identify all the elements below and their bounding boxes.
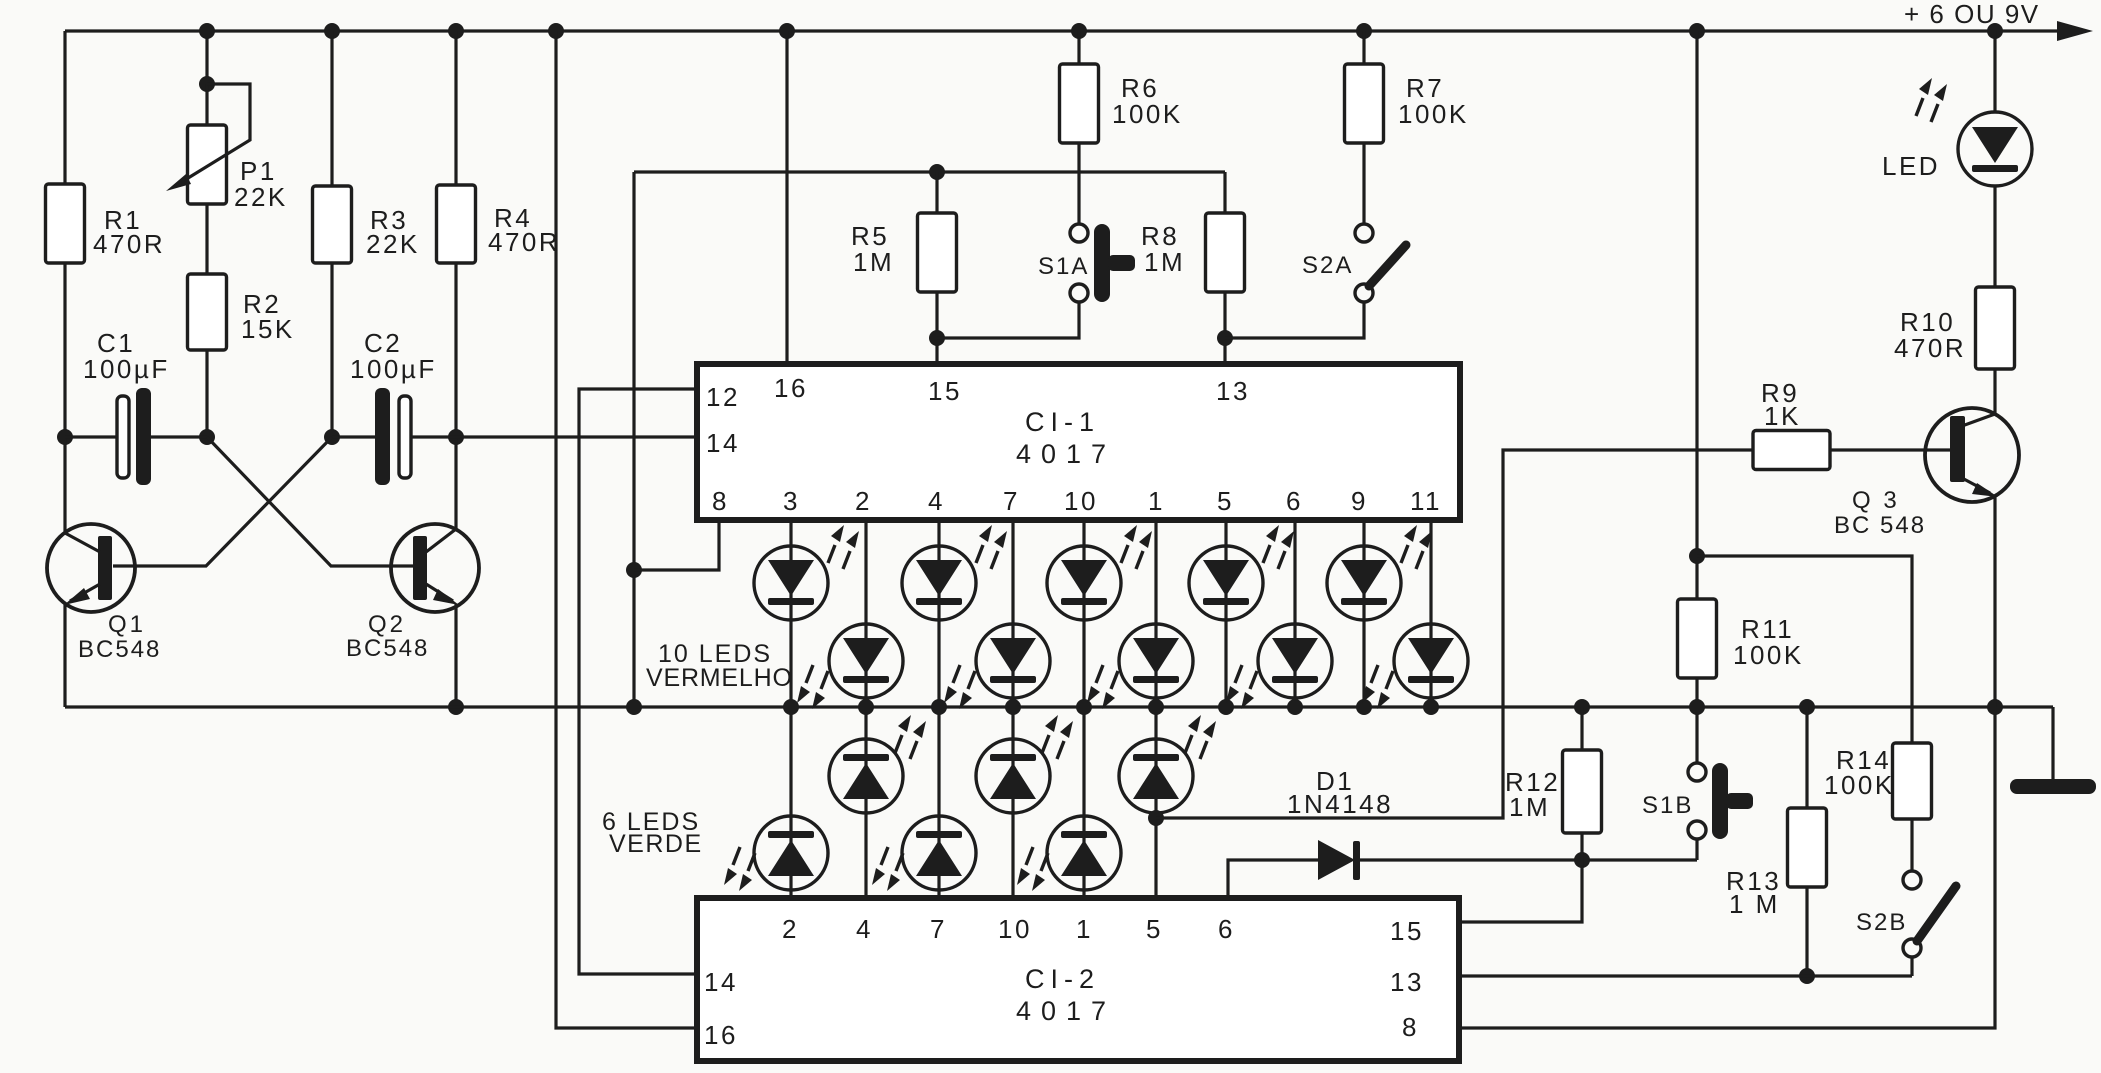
potentiometer P1 — [188, 125, 227, 204]
wire R11 bottom — [1695, 678, 1698, 763]
resistor R10 — [1976, 287, 2015, 369]
svg-text:5: 5 — [1217, 486, 1234, 516]
node R5 top junction — [929, 164, 945, 180]
resistor R2 — [188, 274, 227, 350]
op-amp U1 IC CI-1 4017 — [697, 364, 1460, 520]
wire R3 to Q1 base — [113, 437, 332, 566]
svg-text:4: 4 — [856, 914, 873, 944]
svg-text:VERMELHO: VERMELHO — [646, 664, 793, 692]
wire S2B bottom — [1910, 957, 1913, 976]
wire CI-2 pin5 to R9 — [1156, 450, 1753, 818]
wire Q2 emitter — [454, 604, 457, 707]
svg-text:Q 3: Q 3 — [1852, 487, 1900, 514]
svg-text:1N4148: 1N4148 — [1287, 789, 1393, 819]
node R8-S2A junction — [1217, 330, 1233, 346]
diode D1 1N4148 — [1318, 840, 1355, 880]
switch S2A — [1355, 224, 1373, 242]
wire R8 top — [1223, 172, 1226, 213]
wire CI-2 pin 13 — [1459, 974, 1912, 977]
resistor R12 — [1563, 750, 1602, 833]
node column 1156 rail junction — [1148, 699, 1164, 715]
svg-text:10: 10 — [998, 914, 1032, 944]
LED green LD14 — [902, 816, 976, 890]
node column 1013 rail junction — [1005, 699, 1021, 715]
wire LED anode — [1993, 31, 1996, 112]
LED red LD7 — [1189, 546, 1263, 620]
LED red LD6 — [1119, 624, 1193, 698]
wire LED column pin x=1156 — [1154, 520, 1157, 898]
wire S1A to pin15 — [937, 302, 1079, 338]
node R7 top — [1356, 23, 1372, 39]
wire R11 bus — [1695, 31, 1698, 599]
node LED top rail junction — [1987, 23, 2003, 39]
LED green LD11 — [829, 739, 903, 813]
wire R8 bottom / CI-1 pin 13 — [1223, 292, 1226, 364]
wire Q1 collector — [63, 437, 66, 533]
LED indicator — [1958, 112, 2032, 186]
svg-text:2: 2 — [782, 914, 799, 944]
svg-text:CI-1: CI-1 — [1025, 407, 1100, 437]
svg-text:6: 6 — [1286, 486, 1303, 516]
wire R5 bottom / CI-1 pin 15 — [935, 292, 938, 364]
resistor R8 — [1206, 213, 1245, 292]
resistor R9 — [1753, 431, 1830, 470]
wire R13 bottom — [1805, 887, 1808, 976]
wire R6 top — [1077, 31, 1080, 64]
node R11 rail junction — [1689, 699, 1705, 715]
wire R2 bottom — [205, 350, 208, 437]
svg-text:Q1: Q1 — [108, 611, 146, 638]
svg-text:8: 8 — [1402, 1012, 1419, 1042]
wire Q3 emitter — [1993, 496, 1996, 707]
wire R2 to Q2 base — [207, 437, 413, 566]
op-amp U2 IC CI-2 4017 — [697, 898, 1459, 1061]
svg-text:9: 9 — [1351, 486, 1368, 516]
wire R4 top — [454, 31, 457, 185]
LED red LD10 — [1394, 624, 1468, 698]
svg-text:7: 7 — [1003, 486, 1020, 516]
node column 1226 rail junction — [1218, 699, 1234, 715]
svg-text:100µF: 100µF — [350, 354, 437, 384]
svg-text:16: 16 — [774, 373, 808, 403]
wire P1 wiper arm — [180, 84, 250, 183]
wire CI-2 pin 15 — [1459, 860, 1582, 922]
wire CI-1 reset bus — [632, 172, 635, 707]
resistor R6 — [1060, 64, 1099, 143]
svg-text:4: 4 — [928, 486, 945, 516]
node R13 top — [1799, 699, 1815, 715]
resistor R3 — [313, 186, 352, 263]
svg-text:22K: 22K — [366, 229, 420, 259]
node CI-2 pin16 bus top — [548, 23, 564, 39]
wire common rail — [65, 705, 2053, 708]
svg-text:BC548: BC548 — [346, 635, 429, 662]
svg-text:15: 15 — [1390, 916, 1424, 946]
node Q3 emitter rail junction — [1987, 699, 2003, 715]
node R6 top — [1071, 23, 1087, 39]
svg-text:16: 16 — [704, 1020, 738, 1050]
node CI-2 pin5 to R9 junction — [1148, 810, 1164, 826]
wire P1 top — [205, 31, 208, 84]
LED green LD16 — [1047, 816, 1121, 890]
svg-text:470R: 470R — [1894, 333, 1966, 363]
wire S1B bottom — [1695, 839, 1698, 860]
switch S2B — [1903, 871, 1921, 889]
wire R1 bottom — [63, 263, 66, 437]
svg-text:100K: 100K — [1824, 770, 1895, 800]
node column 1084 rail junction — [1076, 699, 1092, 715]
node Q2 emitter junction — [448, 699, 464, 715]
svg-text:5: 5 — [1146, 914, 1163, 944]
wire LED column pin x=939 — [937, 520, 940, 898]
wire R14 branch — [1697, 556, 1912, 743]
svg-text:470R: 470R — [488, 227, 560, 257]
node column 1295 rail junction — [1287, 699, 1303, 715]
wire CI-1 pin 16 — [785, 31, 788, 364]
wire LED column pin x=1013 — [1011, 520, 1014, 898]
svg-text:S1B: S1B — [1642, 792, 1693, 819]
node R4 junction — [448, 429, 464, 445]
LED red LD9 — [1327, 546, 1401, 620]
svg-text:VERDE: VERDE — [609, 830, 703, 858]
svg-text:S1A: S1A — [1038, 253, 1089, 280]
wire rail to ground — [2051, 707, 2054, 780]
wire C2 left — [332, 435, 375, 438]
wire CI-1 pin 8 — [634, 520, 719, 570]
svg-text:CI-2: CI-2 — [1025, 964, 1100, 994]
switch S1B — [1688, 763, 1706, 781]
wire +V top rail — [65, 29, 2078, 32]
wire R9 to Q3 base — [1830, 448, 1950, 451]
resistor R7 — [1345, 64, 1384, 143]
node reset bus junction — [626, 562, 642, 578]
capacitor C2 — [375, 388, 390, 485]
wire R5 top — [935, 172, 938, 213]
svg-text:22K: 22K — [234, 182, 288, 212]
svg-text:1K: 1K — [1764, 401, 1801, 431]
node R11 bus top — [1689, 23, 1705, 39]
LED red LD1 — [754, 546, 828, 620]
wire R1 top — [63, 31, 66, 184]
wire R12 bottom — [1580, 833, 1583, 860]
resistor R1 — [46, 184, 85, 263]
svg-text:100µF: 100µF — [83, 354, 170, 384]
switch S1A — [1070, 224, 1088, 242]
wire CI-2 pin 16 bus — [556, 31, 697, 1028]
wire Q1 emitter — [63, 604, 66, 707]
wire C1 right — [151, 435, 207, 438]
svg-text:100K: 100K — [1112, 99, 1183, 129]
wire R13 top — [1805, 707, 1808, 808]
wire R14 bottom — [1910, 819, 1913, 871]
wire R7 bottom — [1362, 143, 1365, 224]
wire R7 top — [1362, 31, 1365, 64]
svg-text:11: 11 — [1410, 486, 1442, 516]
svg-text:10: 10 — [1064, 486, 1098, 516]
wire LED column pin x=1431 — [1429, 520, 1432, 707]
resistor R14 — [1893, 743, 1932, 819]
capacitor C1 — [117, 396, 129, 478]
svg-text:1 M: 1 M — [1729, 889, 1780, 919]
svg-text:BC 548: BC 548 — [1834, 512, 1926, 539]
svg-text:3: 3 — [783, 486, 800, 516]
svg-text:14: 14 — [706, 428, 740, 458]
node D1-R12-pin15 junction — [1574, 852, 1590, 868]
wire LED column pin x=1226 — [1224, 520, 1227, 707]
transistor Q3 BC548 — [1925, 408, 2019, 502]
svg-text:470R: 470R — [93, 229, 165, 259]
wire CI-2 pin 8 — [1459, 707, 1995, 1028]
svg-text:S2B: S2B — [1856, 909, 1907, 936]
wire C2 right / CI-1 pin 14 line — [411, 435, 697, 438]
transistor Q2 — [391, 524, 479, 612]
node R3 top — [324, 23, 340, 39]
node R2-C1 junction — [199, 429, 215, 445]
resistor R13 — [1788, 808, 1827, 887]
node column 1364 rail junction — [1356, 699, 1372, 715]
wire R3 top — [330, 31, 333, 186]
svg-text:13: 13 — [1216, 376, 1250, 406]
wire LED column pin x=1295 — [1293, 520, 1296, 707]
svg-text:+ 6 OU 9V: + 6 OU 9V — [1904, 0, 2040, 29]
svg-text:LED: LED — [1882, 151, 1940, 181]
svg-text:1: 1 — [1148, 486, 1165, 516]
svg-text:15K: 15K — [241, 314, 295, 344]
wire R3 bottom — [330, 263, 333, 437]
wire R12 top — [1580, 707, 1583, 750]
wire LED column pin x=866 — [864, 520, 867, 898]
wire reset line — [634, 170, 1225, 173]
svg-text:2: 2 — [855, 486, 872, 516]
node R1-C1 junction — [57, 429, 73, 445]
wire CI-1 pin12 to CI-2 pin14 bus — [579, 389, 697, 974]
wire LED column pin x=1084 — [1082, 520, 1085, 898]
resistor R11 — [1678, 599, 1717, 678]
wire CI-2 pin 6 to D1 — [1228, 860, 1318, 898]
svg-text:1: 1 — [1076, 914, 1093, 944]
resistor R4 — [437, 185, 476, 263]
node P1 top junction — [199, 23, 215, 39]
node CI-1 pin16 top — [779, 23, 795, 39]
transistor Q1 — [47, 524, 135, 612]
node column 1431 rail junction — [1423, 699, 1439, 715]
svg-text:1M: 1M — [1144, 247, 1185, 277]
svg-text:100K: 100K — [1398, 99, 1469, 129]
node R3-C2 junction — [324, 429, 340, 445]
svg-text:4017: 4017 — [1016, 996, 1116, 1026]
svg-text:7: 7 — [930, 914, 947, 944]
svg-text:8: 8 — [712, 486, 729, 516]
svg-text:12: 12 — [706, 382, 740, 412]
node +V arrow — [2057, 21, 2093, 41]
LED red LD2 — [829, 624, 903, 698]
wire D1 to S1B line — [1360, 858, 1697, 861]
LED red LD8 — [1258, 624, 1332, 698]
node R12 top — [1574, 699, 1590, 715]
svg-text:S2A: S2A — [1302, 252, 1353, 279]
wire R4 bottom — [454, 263, 457, 437]
wire R6 bottom — [1077, 143, 1080, 224]
wire Q3 collector — [1993, 369, 1996, 414]
svg-text:14: 14 — [704, 967, 738, 997]
LED green LD13 — [976, 739, 1050, 813]
wire LED column pin x=791 — [789, 520, 792, 898]
svg-text:100K: 100K — [1733, 640, 1804, 670]
ground — [2010, 779, 2096, 794]
wire P1-R2 — [205, 204, 208, 274]
svg-text:1M: 1M — [1509, 792, 1550, 822]
wire S2A to pin13 — [1225, 302, 1364, 338]
svg-text:15: 15 — [928, 376, 962, 406]
node R5-S1A junction — [929, 330, 945, 346]
node column 866 rail junction — [858, 699, 874, 715]
LED red LD4 — [976, 624, 1050, 698]
wire R10 top — [1993, 186, 1996, 287]
LED green LD12 — [754, 816, 828, 890]
node column 791 rail junction — [783, 699, 799, 715]
LED red LD5 — [1047, 546, 1121, 620]
svg-text:13: 13 — [1390, 967, 1424, 997]
node R13 bottom junction — [1799, 968, 1815, 984]
svg-text:4017: 4017 — [1016, 439, 1116, 469]
LED green LD15 — [1119, 739, 1193, 813]
svg-text:BC548: BC548 — [78, 636, 161, 663]
wire Q2 collector — [454, 437, 457, 529]
svg-text:Q2: Q2 — [368, 611, 406, 638]
node R4 top — [448, 23, 464, 39]
svg-text:6: 6 — [1218, 914, 1235, 944]
LED red LD3 — [902, 546, 976, 620]
resistor R5 — [918, 213, 957, 292]
wire C1 left — [65, 435, 117, 438]
node column 939 rail junction — [931, 699, 947, 715]
node R11-R14 junction — [1689, 548, 1705, 564]
wire LED column pin x=1364 — [1362, 520, 1365, 707]
svg-text:1M: 1M — [853, 247, 894, 277]
